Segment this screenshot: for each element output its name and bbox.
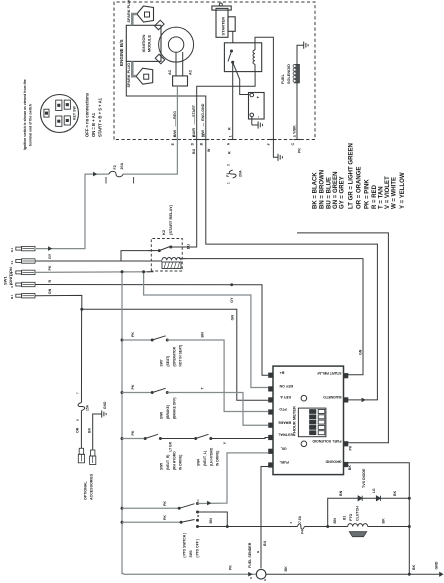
svg-text:START RELAY: START RELAY	[316, 371, 341, 375]
svg-text:LT GR = LIGHT GREEN: LT GR = LIGHT GREEN	[348, 143, 354, 209]
svg-text:OIL: OIL	[280, 447, 287, 451]
svg-text:SW6: SW6	[160, 412, 164, 419]
svg-text:LT GR: LT GR	[169, 441, 173, 451]
svg-text:PK: PK	[163, 515, 167, 520]
svg-text:R: R	[228, 127, 232, 130]
svg-text:SPARK PLUG: SPARK PLUG	[127, 63, 131, 88]
svg-text:MAGNETO: MAGNETO	[323, 395, 342, 399]
svg-text:BN: BN	[209, 518, 213, 524]
svg-text:GN: GN	[359, 349, 363, 355]
svg-text:Y = YELLOW: Y = YELLOW	[400, 172, 406, 209]
svg-text:S 1: S 1	[10, 260, 14, 264]
svg-text:15A: 15A	[86, 404, 90, 411]
svg-text:BN: BN	[201, 332, 205, 338]
svg-text:SW4: SW4	[197, 459, 201, 466]
svg-text:TVS DIODE: TVS DIODE	[362, 468, 366, 488]
svg-text:PTO: PTO	[349, 513, 353, 521]
svg-text:1: 1	[229, 135, 233, 137]
svg-text:A 3: A 3	[10, 271, 14, 275]
svg-text:7.5A: 7.5A	[298, 515, 302, 523]
svg-text:F1: F1	[226, 173, 230, 177]
svg-text:Ignition switch is shown as vi: Ignition switch is shown as viewed from …	[23, 79, 27, 150]
svg-text:KEY A: KEY A	[280, 395, 291, 399]
svg-text:ENGINE B/S: ENGINE B/S	[119, 39, 124, 66]
svg-text:GROUND: GROUND	[325, 460, 341, 464]
svg-text:terminal end of the switch: terminal end of the switch	[29, 104, 33, 146]
svg-text:4: 4	[173, 135, 177, 137]
svg-text:BRAKE: BRAKE	[278, 420, 291, 424]
svg-text:3: 3	[227, 164, 231, 166]
svg-text:BK: BK	[412, 564, 416, 570]
svg-text:BN: BN	[333, 518, 337, 524]
svg-text:SW5: SW5	[160, 463, 164, 470]
svg-text:SW3: SW3	[189, 550, 193, 557]
svg-text:R: R	[48, 280, 52, 283]
svg-text:(BRAKE OFF): (BRAKE OFF)	[173, 398, 177, 419]
svg-text:S: S	[249, 577, 253, 579]
svg-text:GY = GREY: GY = GREY	[340, 176, 346, 209]
svg-text:OPTIONAL: OPTIONAL	[84, 481, 88, 500]
svg-text:PK: PK	[131, 384, 135, 389]
svg-text:W = WHITE: W = WHITE	[391, 177, 397, 209]
svg-text:V = VIOLET: V = VIOLET	[385, 176, 391, 209]
svg-text:STARTER: STARTER	[221, 17, 226, 36]
svg-text:ON = B + A1: ON = B + A1	[91, 112, 96, 137]
svg-text:B+: B+	[280, 370, 285, 374]
svg-text:—: —	[201, 123, 205, 127]
svg-text:OR: OR	[76, 427, 80, 433]
svg-text:(RH HYDRO: (RH HYDRO	[173, 451, 177, 470]
svg-text:FUEL SENDER: FUEL SENDER	[248, 542, 252, 568]
svg-text:(START RELAY): (START RELAY)	[168, 204, 173, 235]
svg-text:BK: BK	[393, 490, 397, 496]
svg-text:Y/BK: Y/BK	[293, 125, 297, 134]
svg-text:F4: F4	[301, 530, 305, 534]
svg-text:B: B	[196, 515, 200, 517]
svg-text:20A: 20A	[120, 163, 124, 170]
svg-text:BK: BK	[88, 427, 92, 433]
svg-text:G 5: G 5	[10, 283, 14, 288]
svg-text:T = TAN: T = TAN	[378, 186, 384, 209]
svg-text:SW7: SW7	[160, 359, 164, 366]
svg-text:B1: B1	[343, 516, 347, 520]
svg-text:SW1: SW1	[3, 276, 8, 285]
svg-text:(SEAT): (SEAT)	[166, 356, 170, 367]
svg-text:BK = BLACK: BK = BLACK	[313, 172, 319, 209]
svg-text:(LH HYDRO: (LH HYDRO	[210, 447, 214, 466]
svg-text:KEY SW: KEY SW	[73, 106, 77, 120]
svg-text:REG: REG	[173, 111, 177, 119]
svg-text:OFF = no connections: OFF = no connections	[85, 92, 90, 137]
svg-text:MODULE: MODULE	[147, 35, 152, 53]
svg-text:GY: GY	[48, 253, 52, 259]
svg-text:SOLENOID: SOLENOID	[287, 64, 291, 84]
svg-text:M 4: M 4	[10, 294, 14, 299]
svg-text:(NEUT_L): (NEUT_L)	[203, 451, 207, 466]
svg-text:PK: PK	[298, 148, 302, 153]
svg-text:BN = BROWN: BN = BROWN	[319, 170, 325, 209]
svg-text:CLUTCH: CLUTCH	[356, 506, 360, 521]
svg-text:BK: BK	[284, 566, 288, 572]
svg-text:W: W	[207, 148, 211, 152]
svg-text:FUEL: FUEL	[279, 460, 289, 464]
svg-text:(OPERATOR: (OPERATOR	[173, 346, 177, 366]
svg-text:START = B + S + A1: START = B + S + A1	[97, 97, 102, 137]
svg-text:IGNITION: IGNITION	[141, 35, 146, 53]
svg-text:PK: PK	[131, 332, 135, 337]
svg-text:BU: BU	[187, 244, 191, 250]
svg-text:PK: PK	[163, 501, 167, 506]
svg-text:BK: BK	[382, 518, 386, 524]
svg-text:GY: GY	[230, 297, 234, 303]
svg-text:KEY ON: KEY ON	[279, 384, 293, 388]
svg-text:SPARK PLUG: SPARK PLUG	[127, 0, 131, 23]
svg-text:F2: F2	[113, 165, 117, 169]
svg-text:(NEUT_R): (NEUT_R)	[166, 455, 170, 470]
svg-text:ACCESSORIES: ACCESSORIES	[90, 473, 94, 500]
svg-text:PK: PK	[48, 265, 52, 270]
svg-text:20A: 20A	[239, 170, 243, 177]
svg-text:(BRAKE): (BRAKE)	[166, 405, 170, 419]
svg-text:PK: PK	[131, 430, 135, 435]
svg-text:R: R	[228, 151, 232, 154]
svg-text:PK = PINK: PK = PINK	[365, 179, 371, 209]
svg-text:PK: PK	[229, 565, 233, 570]
svg-text:IN DRIVE): IN DRIVE)	[179, 455, 183, 470]
svg-text:GN: GN	[48, 288, 52, 294]
svg-text:3: 3	[293, 135, 297, 137]
svg-text:GND: GND	[103, 401, 107, 409]
svg-text:BU: BU	[263, 540, 267, 546]
svg-text:LG: LG	[372, 488, 376, 493]
svg-text:GN = GREEN: GN = GREEN	[333, 172, 339, 209]
svg-text:START: START	[192, 104, 196, 117]
svg-text:OR = ORANGE: OR = ORANGE	[356, 166, 362, 209]
svg-text:R = RED: R = RED	[372, 184, 378, 209]
svg-text:GN: GN	[231, 315, 235, 321]
svg-text:12: 12	[202, 133, 206, 137]
svg-text:F: F	[267, 143, 271, 145]
svg-text:ENG-GND: ENG-GND	[201, 103, 205, 121]
svg-text:FUEL: FUEL	[281, 73, 285, 84]
svg-text:+: +	[256, 96, 261, 99]
svg-text:FUEL SOLENOID: FUEL SOLENOID	[312, 439, 341, 443]
svg-text:PK: PK	[349, 445, 353, 450]
svg-text:AC: AC	[168, 69, 172, 75]
svg-text:K2: K2	[161, 229, 166, 235]
svg-text:BU: BU	[192, 148, 196, 154]
svg-text:8: 8	[193, 135, 197, 137]
svg-text:AC: AC	[189, 69, 193, 75]
svg-text:1: 1	[227, 182, 231, 184]
svg-text:BU = BLUE: BU = BLUE	[327, 177, 333, 209]
svg-text:GND: GND	[435, 561, 439, 569]
svg-text:BN: BN	[339, 490, 343, 496]
svg-text:IN DRIVE): IN DRIVE)	[216, 451, 220, 466]
svg-text:PTO: PTO	[279, 407, 287, 411]
svg-text:NOT IN SEAT): NOT IN SEAT)	[179, 345, 183, 367]
svg-text:HOUR METER: HOUR METER	[292, 406, 297, 433]
svg-text:B 2: B 2	[10, 247, 14, 252]
svg-text:B: B	[256, 551, 260, 553]
svg-text:BK: BK	[348, 465, 352, 471]
svg-text:( PTO OFF ): ( PTO OFF )	[196, 539, 200, 557]
svg-text:( PTO SWITCH ): ( PTO SWITCH )	[183, 533, 187, 558]
